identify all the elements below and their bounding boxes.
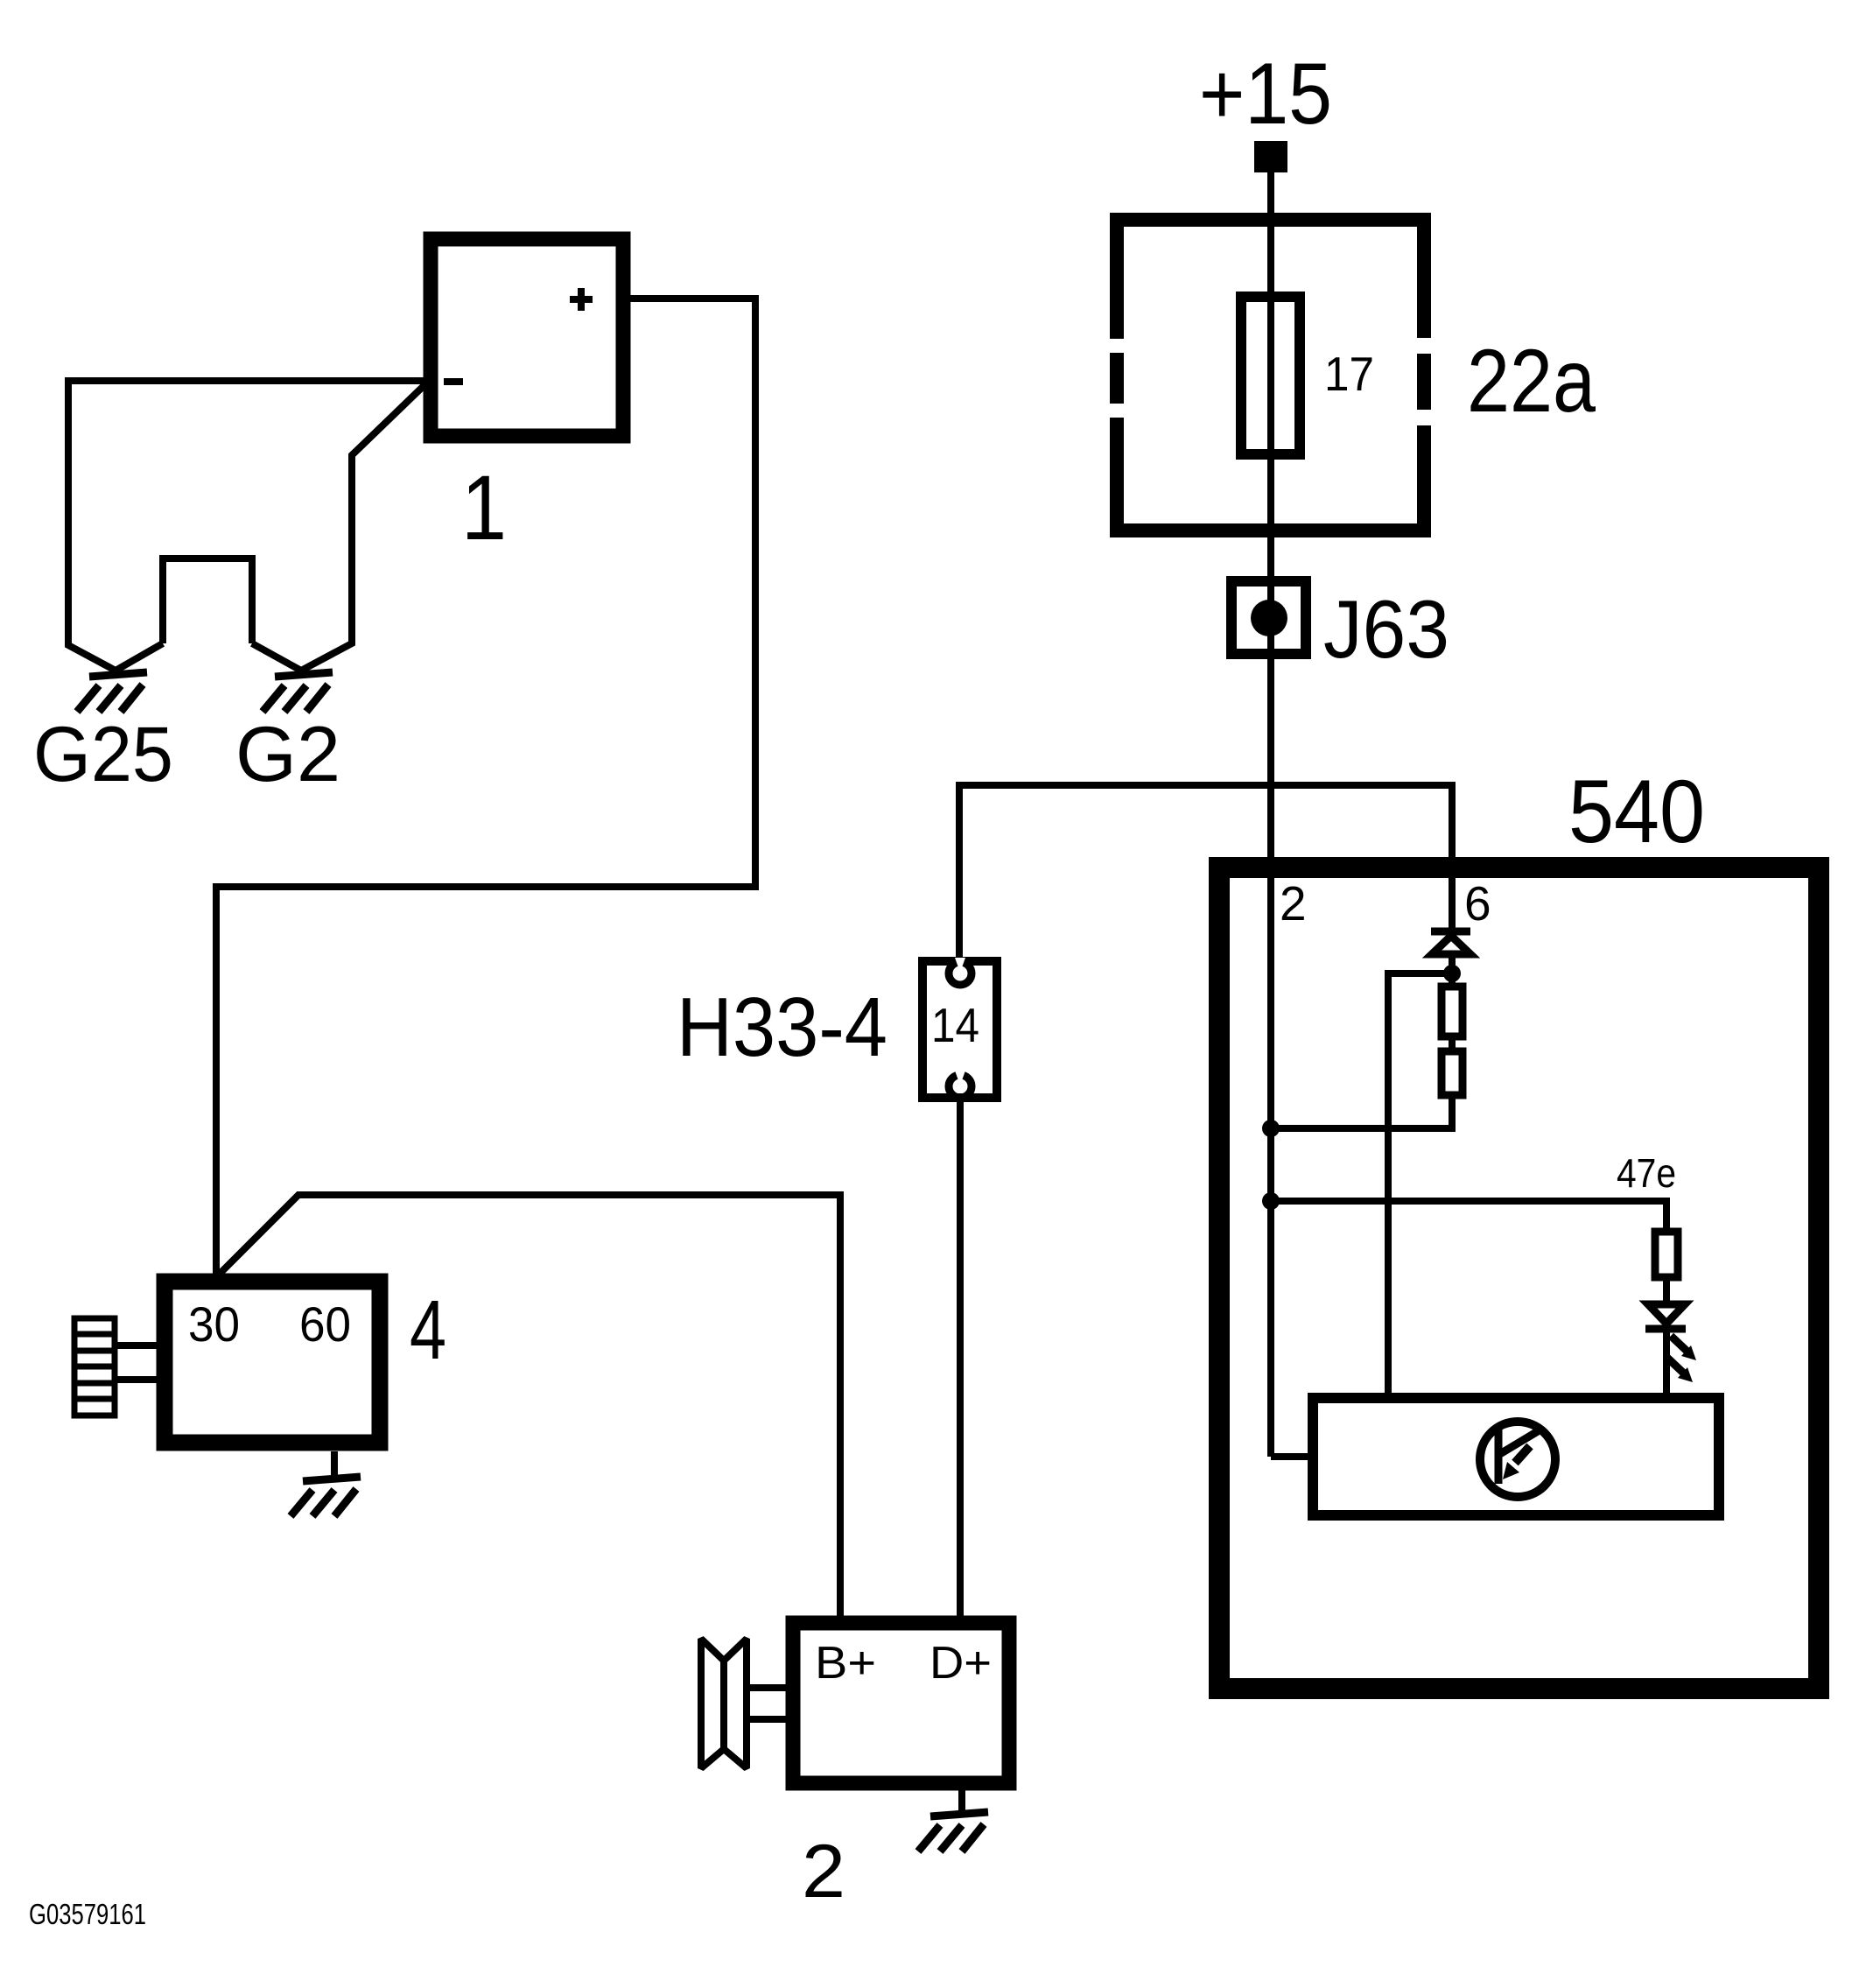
junction node [1262, 1192, 1280, 1210]
wire battery plus to terminal 30 [216, 299, 755, 1277]
wire claw G25 right [116, 643, 163, 671]
wire bridge between grounds [163, 558, 252, 643]
svg-text:G03579161: G03579161 [29, 1898, 146, 1930]
wire branch from diode junction to pump [1388, 973, 1452, 1398]
wire diode to resistors [1449, 954, 1456, 987]
wire branch to H33-4 and pin 6 [959, 785, 1452, 957]
connector H33-4 [922, 961, 997, 1098]
wire 47e horizontal [1271, 1201, 1666, 1232]
LED light arrow 1 [1671, 1336, 1687, 1351]
svg-text:60: 60 [299, 1296, 351, 1352]
junction node [1262, 1120, 1280, 1137]
starter pinion [74, 1318, 115, 1415]
ground at alternator [918, 1812, 988, 1851]
wire alternator to ground [958, 1790, 965, 1811]
wire battery minus diagonal to ground G2 [301, 383, 427, 671]
fuel pump box [1313, 1398, 1719, 1515]
minus terminal [444, 378, 463, 385]
svg-text:G2: G2 [235, 710, 340, 797]
svg-text:2: 2 [802, 1830, 845, 1914]
alternator 2 box [793, 1623, 1009, 1783]
wire battery minus to ground G25 [68, 381, 427, 671]
wire resistor bottom to junction [1449, 1095, 1456, 1132]
LED triangle [1648, 1304, 1685, 1324]
svg-text:2: 2 [1280, 876, 1307, 931]
svg-text:G25: G25 [33, 710, 173, 797]
svg-text:H33-4: H33-4 [677, 980, 887, 1074]
pinion link wires [115, 1342, 165, 1349]
svg-text:B+: B+ [815, 1638, 876, 1689]
svg-text:30: 30 [188, 1296, 240, 1352]
svg-text:+15: +15 [1199, 45, 1332, 142]
LED cathode bar [1645, 1325, 1686, 1333]
wire H33-4 to alternator D+ [957, 1102, 964, 1619]
wire starter to ground [331, 1451, 338, 1476]
connector J63 [1231, 581, 1306, 654]
wire into pump left [1271, 1453, 1313, 1460]
svg-text:4: 4 [410, 1283, 446, 1377]
battery 1 [431, 239, 623, 436]
ground G25 [77, 672, 147, 712]
wire claw G2 left [252, 643, 301, 671]
resistor R2 [1442, 1051, 1463, 1095]
wire resistor to LED [1663, 1277, 1670, 1304]
wire junction horizontal [1271, 1125, 1456, 1132]
terminal circle top [949, 962, 972, 985]
starter 4 box [165, 1282, 380, 1443]
terminal circle bottom [949, 1075, 972, 1098]
wire between resistors [1449, 1036, 1456, 1051]
svg-text:14: 14 [931, 998, 979, 1052]
alternator pulley [701, 1639, 747, 1768]
svg-text:6: 6 [1464, 876, 1491, 931]
svg-text:47e: 47e [1617, 1150, 1676, 1196]
terminal +15 square [1254, 141, 1287, 172]
wire terminal 30 to alternator B+ [216, 1195, 840, 1619]
svg-text:17: 17 [1324, 347, 1374, 401]
wire main vertical from +15 through fuse 17 and J63 into box 540 [1267, 172, 1274, 1457]
junction node below diode [1443, 965, 1461, 982]
wire LED to pump [1663, 1329, 1670, 1398]
control unit box 540 [1219, 868, 1819, 1689]
resistor 47e [1655, 1232, 1678, 1277]
svg-text:J63: J63 [1323, 583, 1449, 675]
pump motor circle [1480, 1422, 1555, 1497]
svg-text:D+: D+ [929, 1638, 992, 1689]
diode (pin 6) [1431, 928, 1470, 936]
resistor R1 [1442, 987, 1463, 1036]
ground at starter [291, 1477, 361, 1516]
fuse 17 [1241, 297, 1300, 454]
plus terminal [570, 296, 593, 303]
fuse holder 22a dashed box [1110, 213, 1431, 537]
svg-text:540: 540 [1568, 762, 1705, 861]
svg-text:1: 1 [461, 457, 507, 559]
svg-text:22a: 22a [1467, 331, 1596, 431]
ground G2 [263, 672, 333, 712]
LED light arrow 2 [1667, 1358, 1683, 1373]
